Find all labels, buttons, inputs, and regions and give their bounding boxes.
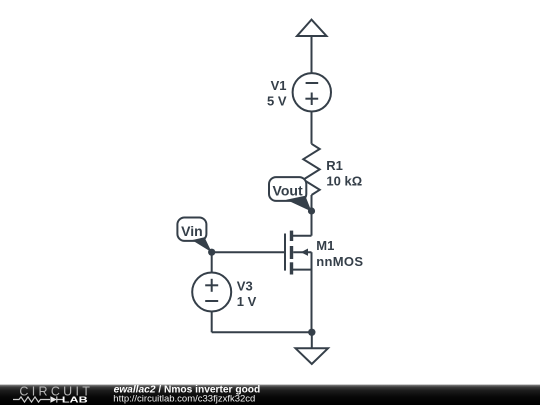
svg-text:nnMOS: nnMOS — [316, 254, 363, 269]
svg-text:10 kΩ: 10 kΩ — [326, 174, 362, 189]
svg-text:LAB: LAB — [62, 395, 88, 404]
svg-text:M1: M1 — [316, 238, 334, 253]
svg-text:V3: V3 — [237, 278, 253, 293]
svg-text:R1: R1 — [326, 158, 343, 173]
svg-text:http://circuitlab.com/c33fjzxf: http://circuitlab.com/c33fjzxfk32cd — [113, 394, 255, 405]
svg-text:V1: V1 — [271, 78, 287, 93]
svg-text:5 V: 5 V — [267, 94, 287, 109]
svg-text:1 V: 1 V — [237, 294, 257, 309]
svg-text:Vout: Vout — [273, 182, 303, 198]
svg-text:Vin: Vin — [181, 223, 203, 239]
